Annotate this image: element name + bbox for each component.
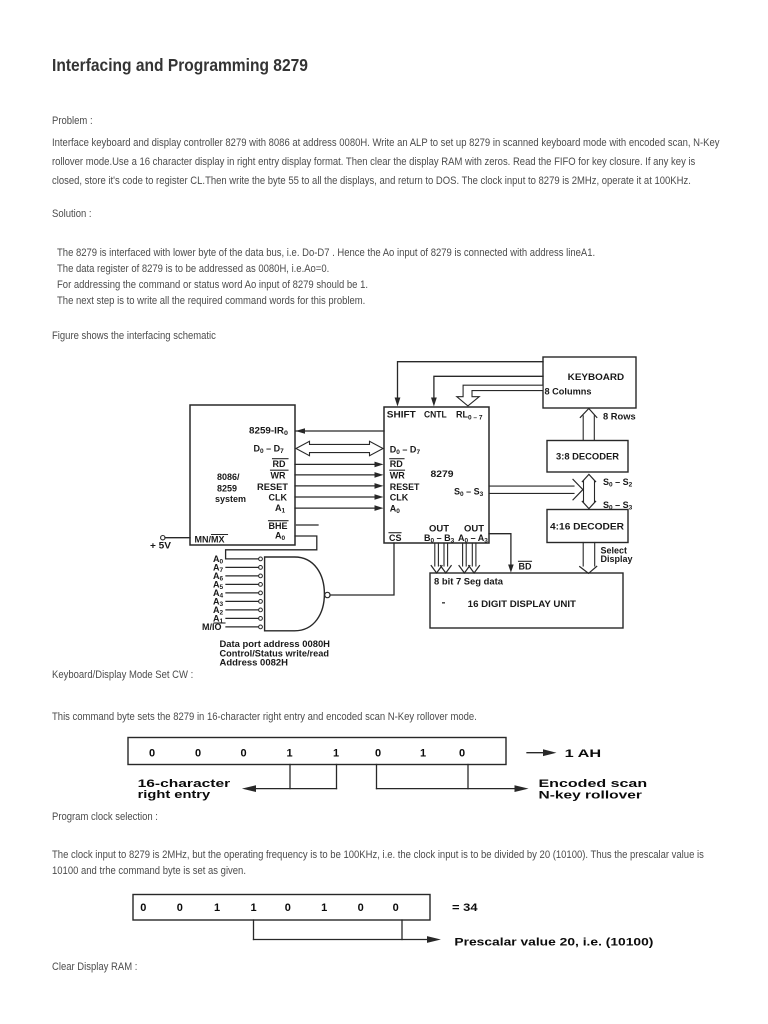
- U1 pin label CLK: [269, 492, 288, 502]
- U3 input A0 with inverting bubble: [213, 554, 262, 566]
- svg-text:1 AH: 1 AH: [565, 748, 602, 760]
- prescalar bits bracket and label: [254, 920, 654, 948]
- svg-text:N-key rollover: N-key rollover: [539, 789, 643, 801]
- svg-text:1: 1: [333, 748, 339, 760]
- svg-text:Encoded scan: Encoded scan: [539, 778, 648, 790]
- U3 input A7 with inverting bubble: [213, 562, 262, 574]
- clock prescalar bit register box: [133, 895, 430, 921]
- U3 input A2 with inverting bubble: [213, 605, 262, 617]
- svg-text:B0 – B3: B0 – B3: [424, 533, 455, 545]
- wire BD from 8279 to display unit: [489, 534, 514, 573]
- U1 pin label MN/MX (MX active low): [195, 535, 228, 545]
- svg-text:1: 1: [250, 902, 256, 914]
- U3 input A3 with inverting bubble: [213, 596, 262, 608]
- wire BHE stub: [297, 524, 319, 526]
- U1 pin label RD (active low): [273, 459, 289, 469]
- U2 pin label OUT B0-B3: [424, 524, 455, 545]
- svg-text:D0 – D7: D0 – D7: [254, 444, 285, 456]
- display mode bits bracket and label: [138, 765, 337, 802]
- svg-text:8259-IR0: 8259-IR0: [249, 426, 288, 438]
- svg-text:CLK: CLK: [390, 493, 409, 503]
- net label S0-S3: [603, 500, 633, 512]
- U3 input A5 with inverting bubble: [213, 579, 262, 591]
- wire CS from NAND output up to 8279: [330, 543, 394, 595]
- U3 input A1 with inverting bubble: [213, 613, 262, 625]
- svg-text:CLK: CLK: [269, 492, 288, 502]
- svg-text:S0 – S3: S0 – S3: [603, 500, 633, 512]
- svg-text:BD: BD: [519, 562, 532, 572]
- U2 pin label RL0-7: [456, 409, 483, 421]
- bus D0-D7 bidirectional hollow arrow: [296, 441, 383, 455]
- svg-text:8086/: 8086/: [217, 472, 240, 482]
- svg-text:0: 0: [140, 902, 146, 914]
- U2 pin label OUT A0-A3: [458, 524, 488, 545]
- svg-text:0: 0: [375, 748, 381, 760]
- svg-text:system: system: [215, 494, 246, 504]
- svg-text:CS: CS: [389, 533, 402, 543]
- svg-text:0: 0: [149, 748, 155, 760]
- svg-text:Display: Display: [601, 554, 633, 564]
- U1 pin label BHE (active low): [269, 521, 289, 531]
- svg-text:0: 0: [285, 902, 291, 914]
- svg-text:RD: RD: [273, 459, 286, 469]
- svg-text:WR: WR: [271, 471, 286, 481]
- svg-text:A0: A0: [275, 531, 286, 543]
- svg-text:1: 1: [321, 902, 327, 914]
- U1 pin label WR (active low): [271, 470, 289, 480]
- wire CLK 8086 to 8279: [295, 494, 384, 500]
- U3 input A6 with inverting bubble: [213, 571, 262, 583]
- svg-text:= 34: = 34: [452, 902, 479, 914]
- net label BD (active low): [519, 561, 532, 571]
- svg-text:8 Columns: 8 Columns: [545, 387, 592, 397]
- svg-text:8 Rows: 8 Rows: [603, 411, 636, 421]
- wire WR 8086 to 8279: [295, 472, 384, 478]
- wire A1 to A0 of 8279: [295, 505, 384, 511]
- U2 pin label RD (active low): [390, 459, 404, 469]
- wire A0 from 8086 down to address decoder NAND input: [226, 536, 317, 559]
- svg-text:1: 1: [286, 748, 292, 760]
- U1 pin label A1: [275, 503, 286, 515]
- U2 pin label D0-D7: [390, 445, 421, 457]
- svg-text:0: 0: [195, 748, 201, 760]
- U1 pin label 8259-IR0: [249, 426, 288, 438]
- svg-text:4:16 DECODER: 4:16 DECODER: [550, 522, 625, 532]
- bus 8 Rows hollow arrow from 3:8 decoder up to keyboard: [580, 409, 635, 441]
- svg-text:KEYBOARD: KEYBOARD: [568, 372, 625, 382]
- svg-text:3:8 DECODER: 3:8 DECODER: [556, 452, 620, 462]
- scan mode bits bracket and label: [377, 765, 648, 802]
- svg-text:Prescalar value 20, i.e. (1010: Prescalar value 20, i.e. (10100): [454, 936, 653, 948]
- svg-text:right entry: right entry: [138, 789, 212, 801]
- KEYBOARD block: [543, 357, 636, 408]
- wire CNTL from keyboard to 8279 top: [431, 376, 543, 406]
- svg-text:MN/MX: MN/MX: [195, 535, 225, 545]
- IC U2 8279 keyboard/display controller block: [384, 407, 489, 543]
- bus scan lines hollow double arrow between 3:8 and 4:16 decoders: [582, 474, 595, 508]
- bus Select Display hollow arrow from 4:16 decoder to display unit: [580, 543, 633, 574]
- svg-text:D0 – D7: D0 – D7: [390, 445, 421, 457]
- wire RD 8086 to 8279: [295, 462, 384, 468]
- 16 digit display unit block: [430, 573, 623, 628]
- bus OUT A0-A3 hollow arrows to display unit: [459, 543, 480, 573]
- svg-text:WR: WR: [390, 471, 405, 481]
- wire 8259-IR0 from 8279 to 8086 system: [296, 428, 385, 434]
- U2 pin label CNTL: [424, 409, 447, 419]
- svg-text:RESET: RESET: [390, 482, 420, 492]
- 4:16 decoder block: [547, 510, 628, 543]
- svg-text:Address 0082H: Address 0082H: [220, 658, 289, 669]
- svg-text:A0: A0: [390, 504, 401, 516]
- svg-text:1: 1: [420, 748, 426, 760]
- prescalar value label = 34: [452, 902, 479, 914]
- svg-text:0: 0: [459, 748, 465, 760]
- svg-text:16 DIGIT DISPLAY UNIT: 16 DIGIT DISPLAY UNIT: [468, 599, 577, 609]
- wire RESET 8086 to 8279: [295, 483, 384, 489]
- svg-text:0: 0: [358, 902, 364, 914]
- U1 pin label A0: [275, 531, 286, 543]
- IC U1 8086/8259 system block: [190, 405, 295, 545]
- svg-text:RESET: RESET: [257, 482, 289, 492]
- caption data port address: [220, 639, 331, 669]
- svg-text:BHE: BHE: [269, 521, 288, 531]
- U2 pin label A0: [390, 504, 401, 516]
- svg-text:0: 0: [393, 902, 399, 914]
- svg-text:RL0 – 7: RL0 – 7: [456, 409, 483, 421]
- 3:8 decoder block: [547, 441, 628, 473]
- svg-text:S0 – S2: S0 – S2: [603, 477, 633, 489]
- U3 input M/IO (IO active low) with inverting bubble: [202, 622, 262, 632]
- U2 pin label S0-S3: [454, 487, 484, 499]
- mode set CW value arrow 1AH: [527, 748, 601, 760]
- svg-text:8279: 8279: [431, 469, 454, 479]
- U2 pin label WR (active low): [390, 470, 405, 480]
- svg-text:1: 1: [214, 902, 220, 914]
- U1 pin label D0-D7: [254, 444, 285, 456]
- svg-text:S0 – S3: S0 – S3: [454, 487, 484, 499]
- svg-text:SHIFT: SHIFT: [387, 409, 417, 419]
- svg-text:CNTL: CNTL: [424, 409, 447, 419]
- wire SHIFT from keyboard to 8279 top: [395, 362, 543, 407]
- svg-text:8259: 8259: [217, 484, 237, 494]
- power +5V node with terminal circle: [150, 536, 190, 551]
- bus S0-S3 hollow arrow from 8279 to decoders: [489, 479, 583, 499]
- U2 pin label RESET: [390, 482, 420, 492]
- svg-text:RD: RD: [390, 459, 403, 469]
- mode set CW bit register box: [128, 738, 506, 765]
- U2 pin label SHIFT: [387, 409, 417, 419]
- bus OUT B0-B3 hollow arrows to display unit: [431, 543, 451, 573]
- svg-text:0: 0: [240, 748, 246, 760]
- bus RL0-7 hollow bent arrow from keyboard to 8279: [457, 385, 543, 406]
- U2 pin label CLK: [390, 493, 409, 503]
- svg-text:A1: A1: [275, 503, 286, 515]
- svg-text:0: 0: [177, 902, 183, 914]
- NAND gate U3 address decoder body: [265, 557, 330, 631]
- net label S0-S2: [603, 477, 633, 489]
- U1 pin label RESET: [257, 482, 289, 492]
- U3 input A4 with inverting bubble: [213, 588, 262, 600]
- svg-text:8 bit 7 Seg data: 8 bit 7 Seg data: [434, 576, 504, 586]
- U2 pin label CS (active low): [389, 533, 402, 543]
- svg-text:+ 5V: + 5V: [150, 541, 171, 551]
